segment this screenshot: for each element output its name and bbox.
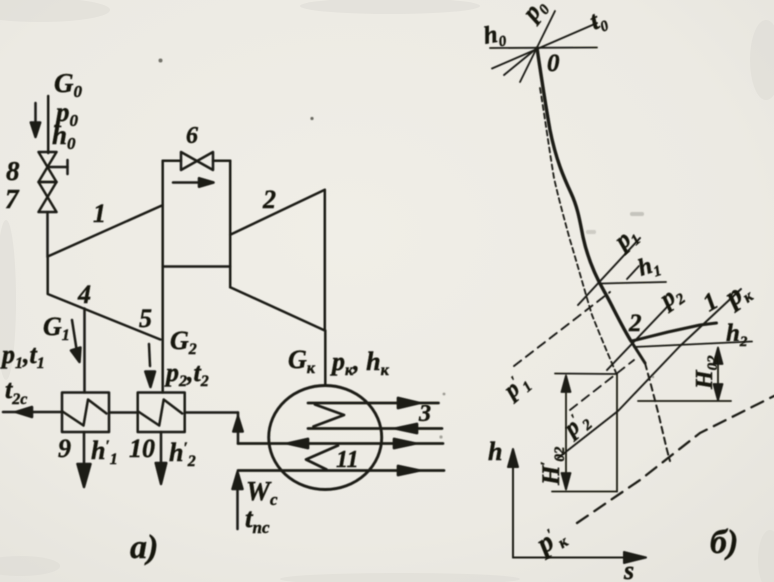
dashed isentrope left of expansion line <box>540 88 617 374</box>
flow arrow G2 (down) <box>145 344 155 387</box>
wire: turbine 2 exhaust to condenser <box>324 331 327 385</box>
svg-text:10: 10 <box>129 434 155 463</box>
wire: network water outlet (left arrow) <box>3 407 62 417</box>
isobar p2' (dashed) <box>570 360 634 410</box>
svg-text:2: 2 <box>628 310 642 337</box>
H02' top line <box>555 373 617 376</box>
wire: main steam supply line vertical <box>47 96 50 153</box>
svg-text:h: h <box>488 437 502 466</box>
wire: crossover right vertical <box>229 161 232 287</box>
isobar p1' (dashed) <box>514 292 610 366</box>
h0 line through point 0 <box>490 47 597 50</box>
isobar p1 <box>578 238 640 305</box>
wire: crossover top with valve 6 gap <box>163 160 231 163</box>
wire: valve 7 to turbine 1 inlet <box>46 212 49 257</box>
svg-text:1: 1 <box>93 199 106 228</box>
turbine 2 body <box>230 190 325 331</box>
svg-text:2: 2 <box>262 185 276 214</box>
drain arrow under heater 10 <box>156 432 167 484</box>
wire: extraction 4 down to heater 9 <box>83 309 86 393</box>
heater 9 box <box>62 393 109 433</box>
svg-text:8: 8 <box>6 156 20 186</box>
tick before h1 label <box>627 266 639 279</box>
heater 9 coil <box>63 400 107 426</box>
condenser sigma symbol <box>314 405 345 427</box>
thick line 2-1 <box>632 323 717 341</box>
valve 8 stem <box>48 160 68 174</box>
scan specks <box>159 59 655 439</box>
flow arrow G1 (down) <box>71 320 81 362</box>
enthalpy level h2 <box>634 342 752 348</box>
condenser 11 shell <box>269 386 382 490</box>
thick stub below 2 <box>631 341 645 363</box>
svg-text:7: 7 <box>5 184 20 214</box>
main expansion line 0-2 (thick) <box>537 48 631 341</box>
drain arrow under heater 9 <box>78 432 91 487</box>
H02' bottom line <box>552 491 617 493</box>
shaft line between turbines <box>163 265 231 268</box>
h axis <box>508 449 518 558</box>
svg-text:5: 5 <box>139 304 152 333</box>
flow arrow G0 (down) <box>31 103 40 137</box>
svg-text:4: 4 <box>77 280 91 309</box>
condenser arrow-fan 11 <box>306 446 338 470</box>
svg-text:11: 11 <box>336 447 359 473</box>
condenser line 4 (cooling water, arrow right) <box>238 466 444 475</box>
svg-text:3: 3 <box>418 401 431 427</box>
svg-text:s: s <box>623 556 634 582</box>
valve 7 (hourglass) <box>39 182 57 212</box>
svg-text:а): а) <box>130 529 158 566</box>
valve 8 (hourglass) <box>39 152 57 182</box>
H02 bottom line <box>638 400 731 402</box>
valve 6 (horizontal hourglass) <box>181 152 213 170</box>
heater 10 coil <box>138 400 182 426</box>
dashed isentrope from 2 down <box>645 363 670 461</box>
svg-text:б): б) <box>710 524 738 561</box>
wire: heater 10 to condensate riser <box>185 411 238 414</box>
svg-text:6: 6 <box>186 123 198 149</box>
s axis <box>513 552 646 563</box>
isobar p2 <box>607 306 668 370</box>
p0 line through point 0 <box>520 11 555 82</box>
svg-text:0: 0 <box>547 50 560 77</box>
t0 line through point 0 <box>492 23 597 69</box>
enthalpy level h1 <box>601 282 666 284</box>
svg-text:9: 9 <box>58 434 71 463</box>
heater 10 box <box>138 393 185 433</box>
wire: condensate riser with up arrow <box>233 413 242 444</box>
flow arrow in crossover (right) <box>173 178 214 187</box>
wire: long vertical (crossover left / turbine1 right / extraction 5) <box>161 161 164 393</box>
condenser steam line out (top right, arrow right) <box>308 398 439 408</box>
condenser line 2 (arrow left) <box>308 424 442 433</box>
measure arrow H02' (double) <box>562 376 571 490</box>
measure arrow H02 (double) <box>714 348 723 401</box>
condenser line 3 (through, arrows) <box>238 439 443 448</box>
wire: heater 9 to heater 10 <box>109 411 138 414</box>
isobar pk' (dashed) <box>577 396 774 523</box>
isentrope vertical segment <box>616 374 618 492</box>
turbine 1 body <box>48 205 163 339</box>
wire: cooling water inlet Wc (up arrow) <box>233 472 243 529</box>
extra stub at point 0 <box>504 48 537 75</box>
isobar pk <box>558 289 741 458</box>
